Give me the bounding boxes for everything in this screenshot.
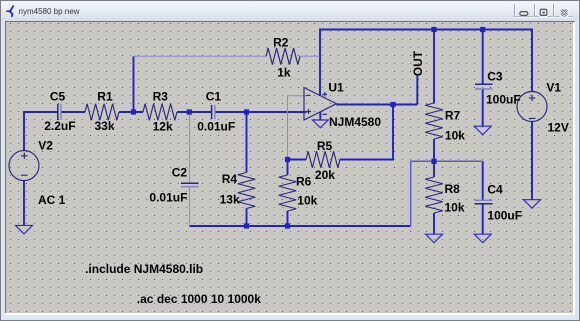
svg-text:R7: R7 — [445, 109, 461, 123]
svg-text:C3: C3 — [487, 70, 503, 84]
svg-text:R2: R2 — [273, 36, 289, 50]
svg-text:0.01uF: 0.01uF — [197, 120, 235, 134]
svg-text:10k: 10k — [445, 129, 465, 143]
svg-text:U1: U1 — [328, 81, 344, 95]
svg-text:13k: 13k — [220, 193, 240, 207]
svg-text:AC 1: AC 1 — [38, 193, 66, 207]
svg-text:OUT: OUT — [411, 50, 425, 76]
svg-text:33k: 33k — [95, 119, 115, 133]
svg-text:R8: R8 — [445, 182, 461, 196]
svg-text:R4: R4 — [222, 172, 238, 186]
svg-text:12V: 12V — [548, 121, 569, 135]
svg-text:2.2uF: 2.2uF — [44, 119, 75, 133]
svg-text:R5: R5 — [317, 139, 333, 153]
svg-text:.ac dec 1000 10 1000k: .ac dec 1000 10 1000k — [137, 292, 261, 306]
svg-text:R3: R3 — [153, 90, 169, 104]
svg-text:100uF: 100uF — [487, 209, 522, 223]
svg-text:1k: 1k — [277, 66, 291, 80]
svg-text:10k: 10k — [297, 193, 317, 207]
svg-text:V1: V1 — [546, 80, 561, 94]
svg-text:.include NJM4580.lib: .include NJM4580.lib — [85, 262, 203, 276]
svg-text:R1: R1 — [97, 90, 113, 104]
svg-text:12k: 12k — [153, 120, 173, 134]
svg-text:20k: 20k — [315, 168, 335, 182]
svg-text:C5: C5 — [50, 90, 66, 104]
svg-text:0.01uF: 0.01uF — [149, 190, 187, 204]
svg-text:C1: C1 — [206, 90, 222, 104]
svg-text:C4: C4 — [487, 183, 503, 197]
svg-text:NJM4580: NJM4580 — [329, 115, 381, 129]
svg-text:C2: C2 — [172, 166, 188, 180]
svg-text:V2: V2 — [38, 139, 53, 153]
svg-text:10k: 10k — [445, 201, 465, 215]
svg-text:R6: R6 — [296, 175, 312, 189]
svg-text:100uF: 100uF — [486, 93, 521, 107]
